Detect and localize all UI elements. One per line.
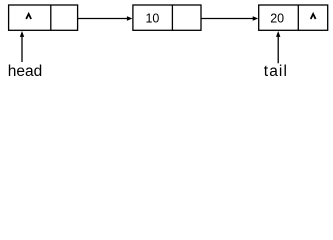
node 1 divider: [50, 5, 52, 30]
node 3 divider: [297, 5, 299, 30]
wire arrow node2 to node3: [201, 16, 258, 21]
node 3 null caret: [311, 14, 316, 19]
tail pointer arrow: [276, 31, 280, 63]
svg-text:head: head: [8, 63, 42, 80]
head pointer arrow: [20, 31, 24, 62]
svg-text:10: 10: [145, 12, 159, 26]
svg-text:tail: tail: [264, 63, 288, 80]
node 1 box: [9, 5, 78, 30]
wire arrow node1 to node2: [78, 16, 133, 21]
node 3 box: [259, 5, 328, 30]
node 2 divider: [171, 5, 173, 30]
node 1 null caret: [26, 14, 31, 19]
node 2 box: [133, 5, 201, 30]
svg-text:20: 20: [270, 12, 284, 26]
